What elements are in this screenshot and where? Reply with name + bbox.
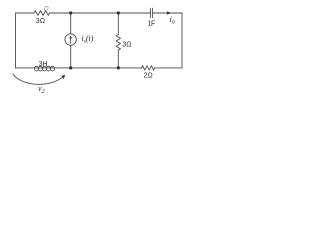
node dot bottom A [69, 66, 72, 69]
small hook mark above top resistor [44, 6, 48, 10]
node dot top A [69, 11, 72, 14]
wire left edge [15, 13, 17, 68]
wire branch current source top [70, 13, 72, 34]
svg-text:3H: 3H [39, 61, 48, 68]
wire top right segment [153, 12, 182, 14]
wire top-left segment [16, 12, 35, 14]
node dot top B [117, 11, 120, 14]
voltage arc v2 [13, 74, 64, 84]
output current arrow i0 on top wire [167, 11, 172, 15]
node dot bottom B [117, 66, 120, 69]
wire branch resistor 3Ω middle top [117, 13, 119, 35]
wire bottom middle segment [35, 67, 142, 69]
current source arrow shaft [70, 37, 72, 43]
resistor 3Ω middle vertical [116, 35, 120, 51]
wire bottom left segment [16, 67, 35, 69]
svg-text:2Ω: 2Ω [144, 72, 153, 79]
svg-text:is(t): is(t) [82, 34, 94, 45]
inductor 3H coil [34, 66, 38, 71]
resistor 3Ω top [34, 11, 50, 16]
resistor 2Ω bottom [142, 66, 155, 70]
wire right edge [181, 13, 183, 68]
wire branch resistor 3Ω middle bottom [117, 50, 119, 68]
wire bottom right segment [155, 67, 182, 69]
svg-text:3Ω: 3Ω [122, 41, 131, 48]
current source is(t) circle [65, 34, 76, 45]
svg-text:1F: 1F [148, 20, 155, 27]
current source arrowhead [69, 35, 72, 38]
capacitor C 1F plates [150, 8, 152, 17]
wire top middle segment [50, 12, 151, 14]
wire branch current source bottom [70, 45, 72, 68]
svg-text:3Ω: 3Ω [36, 18, 45, 25]
voltage arc arrowhead [61, 75, 65, 79]
